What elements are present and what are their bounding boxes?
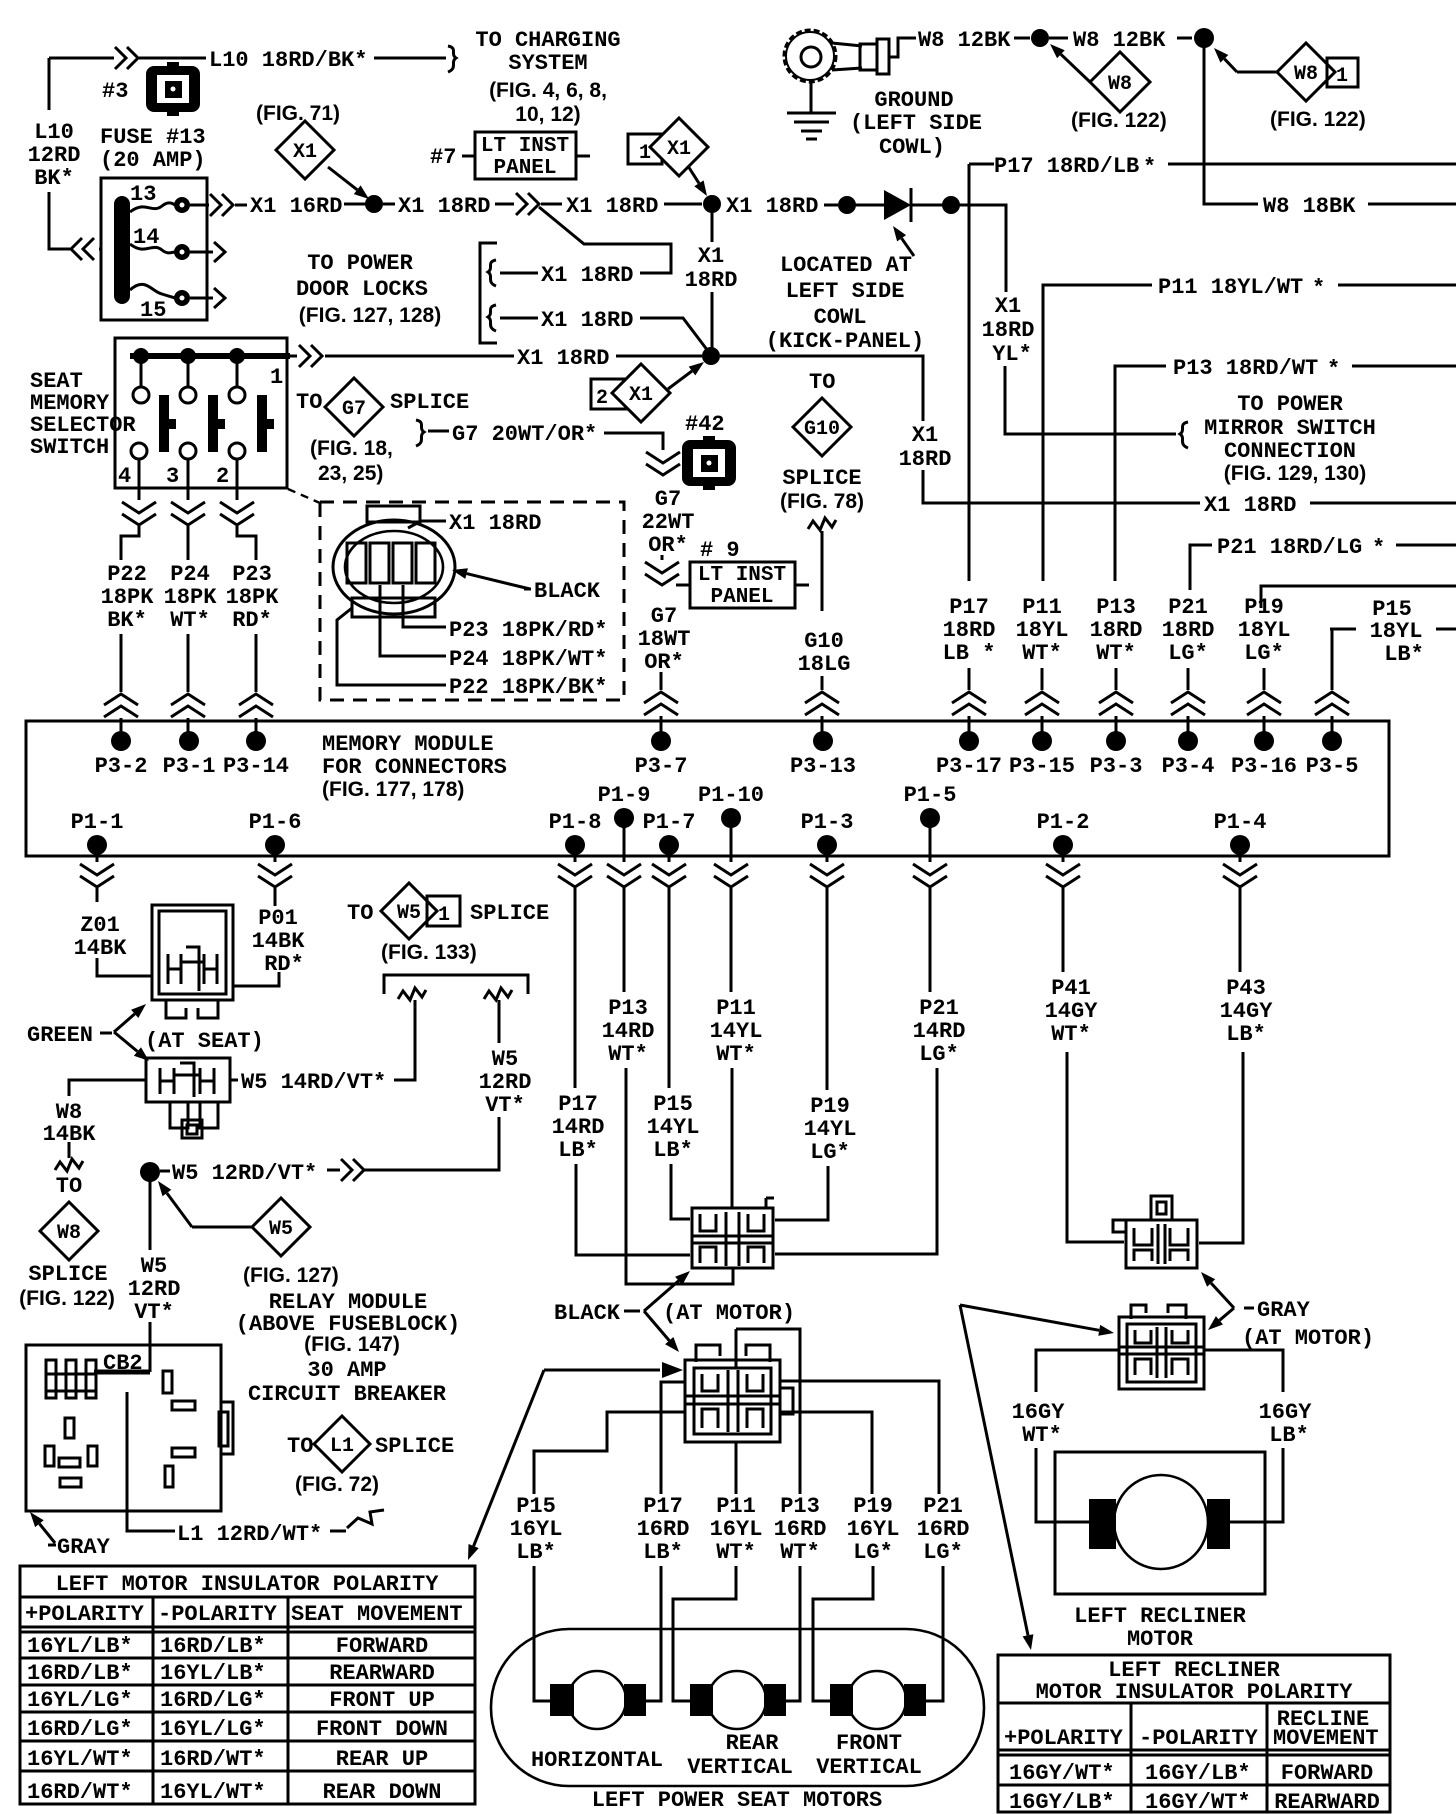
svg-text:VERTICAL: VERTICAL bbox=[816, 1755, 922, 1780]
svg-text:18LG: 18LG bbox=[798, 652, 851, 677]
svg-text:14YL: 14YL bbox=[804, 1117, 857, 1142]
svg-text:P3-7: P3-7 bbox=[635, 754, 688, 779]
svg-text:FORWARD: FORWARD bbox=[1281, 1761, 1373, 1786]
svg-text:16GY: 16GY bbox=[1259, 1400, 1313, 1425]
svg-text:G7: G7 bbox=[655, 487, 681, 512]
svg-text:16YL/LG*: 16YL/LG* bbox=[160, 1717, 266, 1742]
wire L10 12RD/BK* vertical feed bbox=[49, 58, 70, 249]
svg-text:CIRCUIT BREAKER: CIRCUIT BREAKER bbox=[248, 1382, 447, 1407]
svg-text:15: 15 bbox=[140, 298, 166, 323]
svg-text:14GY: 14GY bbox=[1045, 999, 1099, 1024]
leader P22 pin bbox=[337, 608, 446, 685]
diode annotation leader bbox=[902, 238, 914, 256]
svg-text:*: * bbox=[1312, 276, 1325, 301]
svg-text:TO: TO bbox=[296, 390, 322, 415]
svg-text:18PK: 18PK bbox=[101, 585, 155, 610]
pin P3-13 bbox=[813, 731, 833, 751]
wire P17 18RD/LB* bbox=[969, 164, 994, 581]
svg-text:X1 18RD: X1 18RD bbox=[566, 194, 658, 219]
svg-text:P3-3: P3-3 bbox=[1090, 754, 1143, 779]
leader P24 pin bbox=[380, 585, 446, 656]
svg-text:P1-2: P1-2 bbox=[1037, 810, 1090, 835]
fuse link 14 bbox=[130, 244, 175, 253]
svg-text:W5: W5 bbox=[141, 1254, 167, 1279]
wire bracket X1 18RD branches bbox=[480, 243, 497, 343]
svg-text:(FIG. 127, 128): (FIG. 127, 128) bbox=[299, 304, 441, 327]
svg-text:P3-4: P3-4 bbox=[1162, 754, 1215, 779]
node W5 splice diamond (FIG. 127) bbox=[167, 1193, 192, 1227]
svg-text:12RD: 12RD bbox=[128, 1277, 181, 1302]
svg-text:16RD/LB*: 16RD/LB* bbox=[160, 1634, 266, 1659]
svg-text:18RD: 18RD bbox=[1162, 618, 1215, 643]
svg-text:W8 18BK: W8 18BK bbox=[1263, 194, 1356, 219]
svg-text:(FIG. 127): (FIG. 127) bbox=[243, 1264, 339, 1287]
svg-text:LB*: LB* bbox=[643, 1540, 683, 1565]
wire X1 18RD right then down at kick panel bbox=[720, 356, 1200, 503]
svg-text:W5 12RD/VT*: W5 12RD/VT* bbox=[172, 1161, 317, 1186]
svg-text:G7: G7 bbox=[651, 604, 677, 629]
svg-text:#42: #42 bbox=[685, 412, 725, 437]
svg-text:P01: P01 bbox=[258, 906, 298, 931]
wire P17 14RD/LB* bbox=[575, 902, 690, 1255]
svg-text:WT*: WT* bbox=[608, 1042, 648, 1067]
svg-text:REARWARD: REARWARD bbox=[1274, 1790, 1380, 1814]
svg-text:P21: P21 bbox=[923, 1494, 963, 1519]
svg-text:4: 4 bbox=[118, 464, 131, 489]
connector (at seat) green upper bbox=[152, 905, 233, 1000]
table column lines bbox=[1130, 1703, 1133, 1812]
svg-text:FRONT UP: FRONT UP bbox=[329, 1688, 435, 1713]
svg-text:LT INST: LT INST bbox=[481, 135, 569, 158]
circuit breaker CB2 box bbox=[26, 1345, 221, 1511]
svg-text:G7 20WT/OR*: G7 20WT/OR* bbox=[452, 422, 597, 447]
fuse bus bar bbox=[114, 196, 130, 304]
wire W5 12RD/VT* right branch bbox=[364, 1000, 499, 1170]
wire P11 14YL/WT* bbox=[731, 902, 732, 1207]
svg-text:X1: X1 bbox=[912, 423, 938, 448]
svg-text:W5: W5 bbox=[492, 1047, 518, 1072]
svg-text:(LEFT SIDE: (LEFT SIDE bbox=[850, 111, 982, 136]
svg-text:P1-10: P1-10 bbox=[698, 783, 764, 808]
svg-text:16GY/LB*: 16GY/LB* bbox=[1009, 1790, 1115, 1814]
switch contacts top bbox=[133, 387, 149, 403]
wire P11 18YL/WT* bbox=[1043, 285, 1152, 581]
svg-text:TO POWER: TO POWER bbox=[307, 251, 413, 276]
svg-text:14BK: 14BK bbox=[252, 929, 306, 954]
svg-text:P3-14: P3-14 bbox=[223, 754, 289, 779]
wire P17 16RD from connector bbox=[661, 1382, 685, 1494]
wire P11 to rear vertical motor bbox=[673, 1566, 736, 1701]
svg-text:FOR CONNECTORS: FOR CONNECTORS bbox=[322, 755, 507, 780]
table column lines bbox=[152, 1597, 155, 1804]
svg-text:12RD: 12RD bbox=[28, 143, 81, 168]
svg-text:G10: G10 bbox=[804, 418, 840, 441]
svg-text:SPLICE: SPLICE bbox=[390, 390, 469, 415]
svg-text:18PK: 18PK bbox=[226, 585, 280, 610]
svg-text:WT*: WT* bbox=[716, 1042, 756, 1067]
wire arrow from 2-X1 diamond to junction bbox=[668, 371, 692, 389]
svg-text:12RD: 12RD bbox=[479, 1070, 532, 1095]
svg-text:GREEN: GREEN bbox=[27, 1023, 93, 1048]
svg-text:P23 18PK/RD*: P23 18PK/RD* bbox=[449, 618, 607, 643]
wire P21 to front vertical motor bbox=[926, 1566, 943, 1701]
svg-text:PANEL: PANEL bbox=[710, 586, 773, 609]
svg-text:16RD: 16RD bbox=[774, 1517, 827, 1542]
svg-text:FRONT: FRONT bbox=[836, 1731, 902, 1756]
svg-text:SPLICE: SPLICE bbox=[470, 901, 549, 926]
wire P13 14RD/WT* bbox=[624, 902, 733, 1284]
svg-text:# 9: # 9 bbox=[700, 538, 740, 563]
connector C1 oval (black) bbox=[333, 520, 455, 614]
svg-text:TO: TO bbox=[287, 1434, 313, 1459]
svg-text:16RD/WT*: 16RD/WT* bbox=[160, 1747, 266, 1772]
svg-text:18PK: 18PK bbox=[164, 585, 218, 610]
wire row15 stub bbox=[190, 297, 213, 300]
pin P3-17 bbox=[959, 731, 979, 751]
svg-text:16YL/LB*: 16YL/LB* bbox=[27, 1634, 133, 1659]
svg-text:W5: W5 bbox=[269, 1218, 293, 1241]
svg-text:14GY: 14GY bbox=[1220, 999, 1274, 1024]
svg-text:23, 25): 23, 25) bbox=[318, 462, 383, 485]
table LEFT RECLINER MOTOR INSULATOR POLARITY bbox=[998, 1655, 1390, 1812]
fuse terminal 14 bbox=[174, 244, 190, 260]
svg-text:1: 1 bbox=[639, 142, 651, 165]
svg-text:-POLARITY: -POLARITY bbox=[158, 1602, 278, 1627]
svg-text:SWITCH: SWITCH bbox=[30, 435, 109, 460]
svg-text:1: 1 bbox=[270, 365, 283, 390]
wire P21 18RD/LG* bbox=[1190, 545, 1212, 590]
table LEFT MOTOR INSULATOR POLARITY bbox=[20, 1566, 475, 1804]
svg-text:LG*: LG* bbox=[1168, 641, 1208, 666]
svg-text:OR*: OR* bbox=[644, 650, 684, 675]
svg-text:18WT: 18WT bbox=[638, 627, 691, 652]
wire X1 18RD branch row B bbox=[488, 305, 496, 331]
svg-text:GRAY: GRAY bbox=[1257, 1298, 1311, 1323]
svg-text:18RD: 18RD bbox=[1090, 618, 1143, 643]
svg-text:X1: X1 bbox=[698, 244, 724, 269]
svg-text:W8: W8 bbox=[1294, 63, 1318, 86]
svg-text:(FIG. 122): (FIG. 122) bbox=[1071, 109, 1167, 132]
wire P19 branch bbox=[1261, 586, 1456, 608]
svg-text:TO: TO bbox=[809, 370, 835, 395]
switch wiper bars bbox=[159, 395, 169, 452]
wire G7 20WT/OR* bbox=[416, 420, 424, 446]
svg-text:P43: P43 bbox=[1226, 976, 1266, 1001]
svg-text:LG*: LG* bbox=[919, 1042, 959, 1067]
wire P19 16YL from connector bbox=[780, 1412, 872, 1494]
svg-text:P13 18RD/WT: P13 18RD/WT bbox=[1173, 356, 1318, 381]
svg-text:SPLICE: SPLICE bbox=[375, 1434, 454, 1459]
svg-text:P19: P19 bbox=[1244, 595, 1284, 620]
svg-text:LB *: LB * bbox=[943, 641, 996, 666]
svg-text:-POLARITY: -POLARITY bbox=[1139, 1726, 1259, 1751]
svg-text:14BK: 14BK bbox=[43, 1122, 97, 1147]
svg-text:MEMORY MODULE: MEMORY MODULE bbox=[322, 732, 494, 757]
connector gray lower (recliner) bbox=[1131, 1305, 1186, 1319]
svg-text:16RD/LG*: 16RD/LG* bbox=[27, 1717, 133, 1742]
svg-text:YL*: YL* bbox=[992, 342, 1032, 367]
svg-text:REAR: REAR bbox=[726, 1731, 780, 1756]
svg-text:P3-15: P3-15 bbox=[1009, 754, 1075, 779]
svg-text:18RD: 18RD bbox=[982, 318, 1035, 343]
svg-text:X1 18RD: X1 18RD bbox=[517, 346, 609, 371]
breaker element bbox=[94, 1370, 150, 1375]
svg-text:VT*: VT* bbox=[485, 1093, 525, 1118]
svg-text:SYSTEM: SYSTEM bbox=[508, 51, 587, 76]
svg-text:16GY/LB*: 16GY/LB* bbox=[1145, 1761, 1251, 1786]
svg-text:LEFT RECLINER: LEFT RECLINER bbox=[1074, 1604, 1246, 1629]
wire W5 12RD/VT* horizontal bbox=[341, 1159, 364, 1181]
wire row14 stub bbox=[190, 251, 213, 254]
junction dot diode cathode bbox=[942, 196, 960, 214]
svg-text:GRAY: GRAY bbox=[57, 1535, 111, 1560]
svg-text:10, 12): 10, 12) bbox=[515, 103, 580, 126]
svg-text:P1-9: P1-9 bbox=[598, 783, 651, 808]
svg-text:X1: X1 bbox=[995, 294, 1021, 319]
wire W5 12RD/VT* to circuit breaker bbox=[149, 1172, 152, 1372]
svg-text:16YL: 16YL bbox=[847, 1517, 900, 1542]
svg-text:FUSE #13: FUSE #13 bbox=[100, 125, 206, 150]
svg-text:16YL/WT*: 16YL/WT* bbox=[160, 1780, 266, 1805]
left power seat motors oval bbox=[491, 1629, 984, 1786]
svg-text:W5 14RD/VT*: W5 14RD/VT* bbox=[241, 1070, 386, 1095]
svg-text:LOCATED AT: LOCATED AT bbox=[780, 253, 912, 278]
svg-text:LG*: LG* bbox=[1244, 641, 1284, 666]
switch output wires bbox=[139, 459, 237, 500]
wire P13 18RD/WT* bbox=[1115, 366, 1166, 581]
svg-text:X1 18RD: X1 18RD bbox=[398, 194, 490, 219]
svg-text:LEFT MOTOR INSULATOR POLARITY: LEFT MOTOR INSULATOR POLARITY bbox=[56, 1572, 440, 1597]
svg-text:W8: W8 bbox=[1108, 73, 1132, 96]
svg-text:X1 16RD: X1 16RD bbox=[250, 194, 342, 219]
svg-text:(FIG. 147): (FIG. 147) bbox=[304, 1333, 400, 1356]
svg-text:P24 18PK/WT*: P24 18PK/WT* bbox=[449, 647, 607, 672]
svg-text:14: 14 bbox=[133, 225, 159, 250]
svg-text:(FIG. 129, 130): (FIG. 129, 130) bbox=[1224, 462, 1366, 485]
svg-text:*: * bbox=[1372, 536, 1385, 561]
wire P15 14YL/LB* bbox=[669, 902, 690, 1219]
svg-text:X1 18RD: X1 18RD bbox=[541, 263, 633, 288]
svg-text:SPLICE: SPLICE bbox=[782, 466, 861, 491]
svg-text:P13: P13 bbox=[780, 1494, 820, 1519]
connector detail dashed box bbox=[320, 502, 624, 700]
svg-text:P3-17: P3-17 bbox=[936, 754, 1002, 779]
svg-text:P11: P11 bbox=[716, 996, 756, 1021]
svg-text:16RD/WT*: 16RD/WT* bbox=[27, 1780, 133, 1805]
leader X1 18RD pin bbox=[408, 521, 446, 528]
motor M1 horizontal bbox=[568, 1671, 626, 1729]
junction dot W5 splice bbox=[140, 1162, 160, 1182]
svg-text:(FIG. 71): (FIG. 71) bbox=[256, 102, 340, 125]
switch bus bar bbox=[130, 353, 290, 359]
svg-text:P15: P15 bbox=[653, 1092, 693, 1117]
svg-text:+POLARITY: +POLARITY bbox=[1004, 1726, 1124, 1751]
svg-text:L10 18RD/BK*: L10 18RD/BK* bbox=[209, 48, 367, 73]
svg-text:(AT MOTOR): (AT MOTOR) bbox=[1242, 1326, 1374, 1351]
svg-text:18RD: 18RD bbox=[899, 447, 952, 472]
svg-text:BLACK: BLACK bbox=[554, 1301, 621, 1326]
svg-text:LB*: LB* bbox=[1384, 642, 1424, 667]
svg-text:#7: #7 bbox=[430, 145, 456, 170]
svg-text:FORWARD: FORWARD bbox=[336, 1634, 428, 1659]
svg-text:16GY/WT*: 16GY/WT* bbox=[1009, 1761, 1115, 1786]
svg-text:LT INST: LT INST bbox=[698, 564, 786, 587]
pin P3-14 bbox=[246, 731, 266, 751]
svg-text:P19: P19 bbox=[810, 1094, 850, 1119]
svg-text:SEAT MOVEMENT: SEAT MOVEMENT bbox=[291, 1602, 463, 1627]
wire 16GY/WT* to recliner motor bbox=[1036, 1350, 1119, 1522]
svg-text:X1 18RD: X1 18RD bbox=[726, 194, 818, 219]
svg-text:(FIG. 72): (FIG. 72) bbox=[295, 1473, 379, 1496]
wire 16GY/LB* to recliner motor bbox=[1204, 1350, 1283, 1522]
svg-text:P17: P17 bbox=[949, 595, 989, 620]
svg-text:16RD: 16RD bbox=[637, 1517, 690, 1542]
wire W8 18BK bbox=[1204, 46, 1258, 204]
svg-text:TO POWER: TO POWER bbox=[1237, 392, 1343, 417]
svg-text:LG*: LG* bbox=[923, 1540, 963, 1565]
svg-text:WT*: WT* bbox=[1022, 1423, 1062, 1448]
wire P22 18PK/BK* bbox=[121, 526, 139, 692]
leader from motor connector to table bbox=[474, 1370, 544, 1546]
wire X1 18RD vertical from junction bbox=[711, 204, 714, 349]
svg-text:LB*: LB* bbox=[1226, 1022, 1266, 1047]
svg-text:P11: P11 bbox=[716, 1494, 756, 1519]
connector gray upper (recliner) bbox=[1151, 1196, 1172, 1220]
svg-text:WT*: WT* bbox=[170, 608, 210, 633]
svg-text:P1-5: P1-5 bbox=[904, 783, 957, 808]
svg-text:LB*: LB* bbox=[558, 1138, 598, 1163]
junction dot W8 splice 1 bbox=[1031, 29, 1049, 47]
svg-text:LB*: LB* bbox=[516, 1540, 556, 1565]
svg-text:REAR UP: REAR UP bbox=[336, 1747, 428, 1772]
wire P15 to horizontal motor bbox=[534, 1566, 550, 1701]
junction dot X1 at switch bus bbox=[702, 347, 720, 365]
svg-text:P13: P13 bbox=[1096, 595, 1136, 620]
switch S1 body bbox=[115, 338, 287, 488]
motor M3 front vertical bbox=[848, 1671, 906, 1729]
svg-text:L10: L10 bbox=[34, 120, 74, 145]
svg-text:BLACK: BLACK bbox=[534, 579, 601, 604]
svg-text:16RD/LB*: 16RD/LB* bbox=[27, 1661, 133, 1686]
svg-text:(FIG. 18,: (FIG. 18, bbox=[310, 437, 393, 460]
svg-text:MOTOR: MOTOR bbox=[1127, 1627, 1194, 1652]
svg-text:(AT MOTOR): (AT MOTOR) bbox=[663, 1301, 795, 1326]
svg-text:(FIG. 122): (FIG. 122) bbox=[1270, 108, 1366, 131]
svg-text:X1 18RD: X1 18RD bbox=[449, 511, 541, 536]
svg-text:LEFT POWER SEAT MOTORS: LEFT POWER SEAT MOTORS bbox=[592, 1788, 882, 1813]
svg-text:TO: TO bbox=[347, 901, 373, 926]
svg-text:LG*: LG* bbox=[853, 1540, 893, 1565]
svg-text:14RD: 14RD bbox=[913, 1019, 966, 1044]
connector (at motor) black lower (6-pin) bbox=[696, 1345, 770, 1362]
fuse terminal 13 bbox=[174, 197, 190, 213]
svg-text:W8: W8 bbox=[57, 1222, 81, 1245]
svg-text:G10: G10 bbox=[804, 629, 844, 654]
svg-text:P17: P17 bbox=[643, 1494, 683, 1519]
dashed leader from switch bbox=[288, 489, 320, 503]
leader P23 pin bbox=[403, 585, 446, 627]
pin P3-5 bbox=[1322, 731, 1342, 751]
svg-text:*: * bbox=[1143, 155, 1156, 180]
svg-text:RD*: RD* bbox=[232, 608, 272, 633]
svg-text:P1-3: P1-3 bbox=[801, 810, 854, 835]
svg-text:SPLICE: SPLICE bbox=[28, 1262, 107, 1287]
svg-text:18RD: 18RD bbox=[943, 618, 996, 643]
wire fuse row13 X1 16RD bbox=[190, 204, 209, 207]
svg-text:WT*: WT* bbox=[1096, 641, 1136, 666]
svg-text:(AT SEAT): (AT SEAT) bbox=[145, 1029, 264, 1054]
svg-text:GROUND: GROUND bbox=[874, 88, 953, 113]
svg-text:P22 18PK/BK*: P22 18PK/BK* bbox=[449, 675, 607, 700]
svg-text:W5: W5 bbox=[397, 902, 421, 925]
svg-text:(KICK-PANEL): (KICK-PANEL) bbox=[766, 329, 924, 354]
svg-text:(FIG. 122): (FIG. 122) bbox=[19, 1287, 115, 1310]
svg-text:P22: P22 bbox=[107, 562, 147, 587]
leader BLACK with arrow bbox=[467, 574, 530, 589]
svg-text:WT*: WT* bbox=[716, 1540, 756, 1565]
svg-text:1: 1 bbox=[1336, 65, 1348, 88]
svg-text:LB*: LB* bbox=[653, 1138, 693, 1163]
wire bracket to W5-1 splice bbox=[384, 975, 528, 994]
svg-text:16GY/WT*: 16GY/WT* bbox=[1145, 1790, 1251, 1814]
junction dot W8 splice 2 bbox=[1194, 28, 1214, 48]
ground ring terminal (left side cowl) bbox=[784, 30, 836, 82]
svg-text:P19: P19 bbox=[853, 1494, 893, 1519]
wire X1 18RD from seat memory switch bbox=[287, 355, 297, 358]
svg-text:(FIG. 133): (FIG. 133) bbox=[381, 941, 477, 964]
wire X1 18RD segment 2 bbox=[541, 203, 562, 206]
svg-text:13: 13 bbox=[130, 182, 156, 207]
svg-text:16GY: 16GY bbox=[1012, 1400, 1066, 1425]
pin P3-4 bbox=[1178, 731, 1198, 751]
wire P23 18PK/RD* bbox=[237, 526, 256, 692]
svg-text:WT*: WT* bbox=[780, 1540, 820, 1565]
pin P3-16 bbox=[1254, 731, 1274, 751]
svg-text:(FIG. 4, 6, 8,: (FIG. 4, 6, 8, bbox=[489, 79, 607, 102]
svg-text:MOVEMENT: MOVEMENT bbox=[1273, 1726, 1379, 1751]
svg-text:TO: TO bbox=[56, 1174, 82, 1199]
svg-text:LG*: LG* bbox=[810, 1140, 850, 1165]
leader from recliner table to gray connector bbox=[960, 1305, 1099, 1330]
svg-text:G7: G7 bbox=[342, 398, 366, 421]
svg-text:P17 18RD/LB: P17 18RD/LB bbox=[994, 154, 1139, 179]
svg-text:P41: P41 bbox=[1051, 976, 1091, 1001]
wire W8 12BK segment 2 bbox=[1049, 37, 1068, 40]
svg-text:P11: P11 bbox=[1022, 595, 1062, 620]
svg-text:X1: X1 bbox=[667, 138, 691, 161]
svg-text:X1 18RD: X1 18RD bbox=[1204, 493, 1296, 518]
svg-text:18RD: 18RD bbox=[685, 268, 738, 293]
svg-text:L1: L1 bbox=[330, 1435, 354, 1458]
wire arrow from 1-X1 diamond to junction bbox=[688, 166, 699, 183]
svg-text:2: 2 bbox=[216, 464, 229, 489]
svg-text:P11 18YL/WT: P11 18YL/WT bbox=[1158, 275, 1303, 300]
svg-text:P24: P24 bbox=[170, 562, 210, 587]
svg-text:P23: P23 bbox=[232, 562, 272, 587]
svg-text:14BK: 14BK bbox=[74, 936, 128, 961]
svg-text:(FIG. 78): (FIG. 78) bbox=[780, 490, 864, 513]
pin P3-7 bbox=[651, 731, 671, 751]
svg-text:MIRROR SWITCH: MIRROR SWITCH bbox=[1204, 416, 1376, 441]
fuse link 13 bbox=[130, 203, 175, 212]
svg-text:16YL/WT*: 16YL/WT* bbox=[27, 1747, 133, 1772]
svg-text:PANEL: PANEL bbox=[493, 157, 556, 180]
svg-text:X1: X1 bbox=[629, 384, 653, 407]
svg-text:P1-1: P1-1 bbox=[71, 810, 124, 835]
node 1-X1 connector diamond bbox=[628, 134, 662, 164]
wire W8 14BK to splice bbox=[69, 1080, 146, 1158]
svg-text:W8 12BK: W8 12BK bbox=[918, 28, 1011, 53]
